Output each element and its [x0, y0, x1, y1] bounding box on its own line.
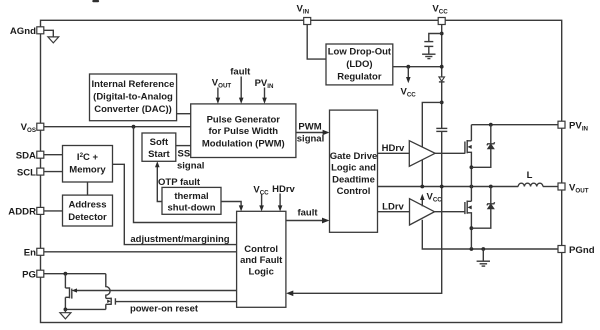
svg-text:fault: fault [230, 67, 251, 78]
block thermal shutdown [162, 187, 221, 214]
transistor Q1 high-side FET [465, 125, 472, 187]
svg-text:LDrv: LDrv [382, 202, 404, 213]
capacitor bootstrap plates [436, 127, 447, 129]
svg-text:ADDR: ADDR [8, 207, 36, 218]
svg-text:signal: signal [297, 134, 324, 145]
svg-text:and Fault: and Fault [240, 255, 283, 266]
pin AGnd [37, 27, 44, 34]
svg-text:Logic: Logic [249, 266, 274, 277]
pin SDA [37, 151, 44, 158]
pin PGnd [558, 246, 565, 253]
svg-text:PWM: PWM [298, 122, 321, 133]
svg-text:HDrv: HDrv [272, 184, 295, 195]
wire HDrv arrow into control [279, 194, 281, 209]
wire PG to Q4 drain with hop [106, 274, 110, 299]
wire HDrv to buffer [378, 152, 410, 154]
svg-text:Internal Reference: Internal Reference [92, 79, 175, 90]
wire bootstrap cap to switch node and sense line down to control [290, 131, 441, 293]
wire En [44, 251, 237, 253]
wire SCL [44, 171, 63, 173]
svg-text:fault: fault [297, 208, 318, 219]
block I2C memory [63, 146, 113, 183]
wire ADDR [44, 210, 63, 212]
capacitor C plates [424, 41, 433, 43]
pin VOS [37, 123, 44, 130]
wire power-on reset to Q4 [115, 301, 236, 303]
block control and fault logic [237, 211, 286, 307]
pin ADDR [37, 207, 44, 214]
op-amp buffer LDrv [410, 199, 435, 225]
wire VCC arrow into control [261, 194, 263, 208]
node bootstrap junction [440, 101, 444, 105]
svg-text:Address: Address [68, 200, 106, 211]
wire VOS line [44, 126, 191, 128]
wire PWM signal to gate drive [296, 132, 325, 134]
pin En [37, 248, 44, 255]
wire DAC to PWM [177, 113, 191, 115]
svg-text:Soft: Soft [150, 137, 169, 148]
pin SCL [37, 168, 44, 175]
pin VCC top [438, 18, 445, 25]
block internal reference DAC [90, 74, 177, 121]
ground chassis symbol PG [64, 309, 66, 312]
svg-text:SS: SS [178, 149, 191, 160]
svg-text:SCL: SCL [17, 168, 36, 179]
wire SS signal [176, 145, 191, 147]
wire I2C to address detector [87, 182, 89, 195]
wire ground link Q3 Q4 [65, 308, 105, 310]
svg-text:thermal: thermal [174, 191, 208, 202]
capacitor decoupling wire [429, 34, 442, 42]
ground earth PGnd [482, 249, 484, 261]
svg-text:AGnd: AGnd [10, 26, 36, 37]
svg-text:HDrv: HDrv [382, 143, 405, 154]
svg-text:(LDO): (LDO) [346, 59, 372, 70]
svg-text:En: En [24, 248, 36, 259]
wire thermal to control [221, 202, 241, 209]
wire fault arrow into PWM [240, 77, 242, 101]
pin PG [37, 270, 44, 277]
svg-text:Low Drop-Out: Low Drop-Out [328, 47, 392, 58]
wire HDrv output to gate [435, 152, 465, 154]
transistor Q3 PG pull-down [65, 274, 71, 310]
wire gate drive line to Q3 [75, 290, 237, 292]
svg-text:adjustment/margining: adjustment/margining [130, 234, 229, 245]
svg-text:Logic and: Logic and [331, 163, 376, 174]
svg-text:Memory: Memory [69, 165, 106, 176]
IC boundary [41, 20, 562, 322]
svg-text:Modulation (PWM): Modulation (PWM) [202, 138, 285, 149]
wire bootstrap rail to HDrv buffer [422, 102, 441, 186]
block PWM generator [191, 104, 296, 158]
svg-text:Detector: Detector [68, 212, 107, 223]
wire LS source to diode [471, 209, 490, 229]
wire VCC tap arrow [407, 67, 409, 80]
transistor Q2 low-side FET [465, 187, 472, 250]
wire SDA [44, 154, 63, 156]
svg-text:Regulator: Regulator [337, 71, 382, 82]
diode D2 body low-side [487, 187, 495, 209]
wire LDrv VCC arrow [421, 198, 423, 207]
svg-text:PG: PG [22, 270, 36, 281]
wire PVIN line [471, 124, 558, 126]
wire LDrv output to gate [435, 211, 465, 213]
wire OTP fault to soft start [157, 165, 162, 202]
svg-text:Start: Start [148, 149, 170, 160]
wire VOUT arrow into PWM [217, 88, 219, 101]
svg-text:shut-down: shut-down [167, 202, 215, 213]
wire adjustment/margining [134, 127, 237, 223]
wire PVIN arrow into PWM [264, 88, 266, 101]
svg-text:SDA: SDA [16, 151, 36, 162]
diode bootstrap [441, 82, 443, 128]
svg-text:(Digital-to-Analog: (Digital-to-Analog [93, 91, 173, 102]
svg-text:OTP fault: OTP fault [158, 177, 201, 188]
wire VIN down to LDO [307, 24, 326, 59]
wire LDrv ground rail / PGnd line [422, 220, 558, 249]
block soft start [142, 133, 176, 161]
diode D1 body high-side [487, 125, 495, 149]
block LDO regulator [326, 44, 393, 85]
cropped text fragment top-left [92, 0, 99, 2]
node VOS junction [132, 125, 136, 129]
inductor L [518, 183, 543, 186]
wire VCC pin down [441, 24, 443, 76]
svg-text:signal: signal [177, 161, 204, 172]
wire HS source to diode [471, 149, 490, 168]
svg-text:L: L [527, 170, 533, 181]
wire memory to control [113, 164, 237, 244]
pin VIN [304, 18, 311, 25]
wire fault control to gate drive [286, 220, 324, 222]
pin VOUT [558, 183, 565, 190]
svg-text:Control: Control [337, 186, 371, 197]
svg-text:Gate Drive: Gate Drive [330, 151, 378, 162]
svg-text:power-on reset: power-on reset [130, 304, 199, 315]
ground AGnd chassis [44, 30, 54, 36]
ground earth symbol [422, 53, 435, 55]
svg-text:Control: Control [244, 244, 278, 255]
op-amp buffer HDrv [409, 141, 435, 167]
svg-text:Deadtime: Deadtime [332, 175, 375, 186]
wire VOUT switch node line [378, 186, 519, 188]
block address detector [63, 195, 113, 226]
svg-text:for Pulse Width: for Pulse Width [209, 126, 279, 137]
wire LDO output to VCC rail [393, 66, 442, 68]
svg-text:Converter (DAC)): Converter (DAC)) [94, 104, 172, 115]
wire PG line [44, 273, 106, 275]
pin PVIN [558, 121, 565, 128]
wire LDrv to buffer [378, 211, 410, 213]
svg-text:PGnd: PGnd [569, 245, 595, 256]
block gate drive [330, 110, 378, 232]
transistor Q4 power-on reset FET [106, 298, 116, 310]
svg-text:Pulse Generator: Pulse Generator [207, 114, 281, 125]
